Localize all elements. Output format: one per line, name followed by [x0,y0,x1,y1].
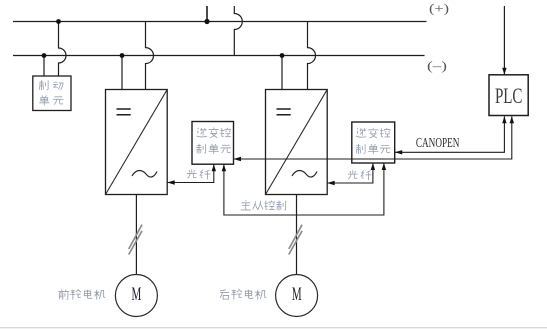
wire: master-slave control line [224,163,384,215]
control unit 2 box 逆变控制单元 [352,122,395,163]
svg-text:(–): (–) [427,58,447,73]
control unit 1 box 逆变控制单元 [192,122,234,165]
break marks on motor M1 lead [129,225,142,255]
motor M1 [115,275,157,317]
svg-text:M: M [292,284,302,305]
wire: (-) DC bus [13,55,425,57]
wire: (-) bus to inverter U1 [121,56,123,90]
arrow into control unit 1 right edge [234,157,242,161]
wire: CANOPEN line PLC to control unit 2 [395,116,505,152]
arrow into PLC bottom (daisy line) [510,116,514,123]
arrow into control unit 2 bottom (fiber) [371,163,375,170]
svg-text:(+): (+) [429,1,449,16]
arrow into PLC bottom (CANOPEN) [502,116,506,123]
wire: supply stub left [206,6,208,22]
wire: (+) DC bus [13,21,427,23]
brake unit box 制动单元 [33,76,71,111]
svg-text:CANOPEN: CANOPEN [416,135,460,150]
wire: (+) bus to inverter U1 with hop over (-) bus [146,22,154,90]
arrow into control unit 1 bottom (fiber) [212,164,216,171]
label 光纤 (fiber) right [348,170,371,180]
label 主从控制 (master-slave control) [241,200,286,210]
wire: inverter U1 to motor M1 [135,195,137,276]
arrow into control unit 1 bottom (master-slave) [222,164,226,171]
arrow into control unit 2 right edge [395,150,403,154]
wire: inverter U2 to motor M2 [296,195,298,276]
wire: (-) bus to inverter U2 [281,56,283,90]
label 光纤 (fiber) left [187,169,210,179]
wire: CANOPEN daisy line PLC to control unit 1 (crosses inverter U2) [234,116,512,159]
svg-text:PLC: PLC [495,83,523,108]
junction dot on (+) bus at supply stub [204,19,209,24]
label 前轮电机 (front wheel motor) [58,289,105,299]
junction dot on (-) bus at brake feed [42,53,47,58]
arrow into PLC top [502,68,506,75]
wire: (-) bus to brake unit [43,56,45,77]
wire: PLC supply drop from top [503,6,505,75]
wire: optical fiber link control unit 1 to inverter U1 [167,164,214,182]
wire: optical fiber link control unit 2 to inverter U2 [327,163,373,183]
wire: (+) bus to brake unit with hop over (-) bus [59,22,67,77]
arrow into control unit 2 bottom (master-slave) [382,163,386,170]
PLC box [489,75,528,116]
label 后轮电机 (rear wheel motor) [220,289,266,299]
junction dot on (-) bus at inverter U1 feed [120,53,125,58]
motor M2 [276,275,318,317]
junction dot on (-) bus at inverter U2 feed [280,53,285,58]
break marks on motor M2 lead [289,225,302,255]
svg-text:M: M [132,284,142,305]
wire: supply stub right with hop over (+) bus [234,6,242,56]
inverter U1 [106,90,168,195]
arrow into inverter U2 right edge [327,181,335,185]
wire: (+) bus to inverter U2 with hop over (-) bus [308,22,316,90]
inverter U2 [266,90,328,195]
junction dot on (+) bus at brake feed [56,19,61,24]
arrow into inverter U1 right edge [167,180,175,184]
